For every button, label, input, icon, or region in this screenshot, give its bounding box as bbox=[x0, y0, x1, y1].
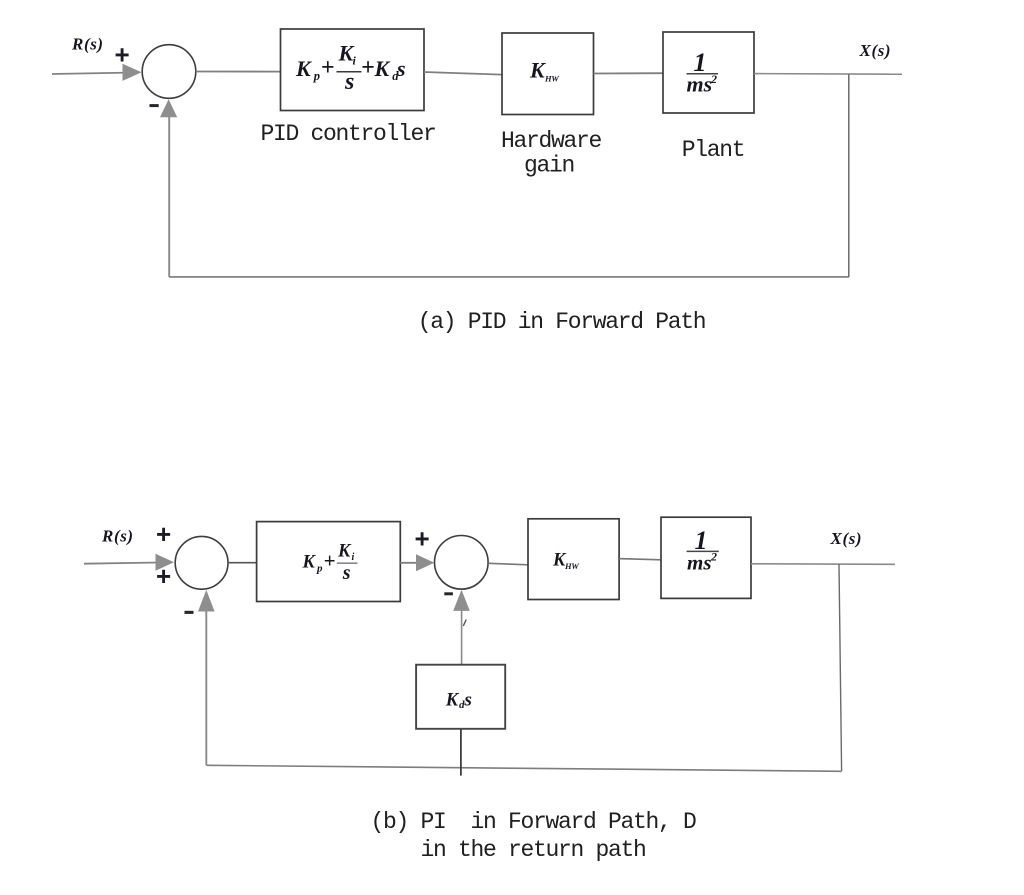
block: PID controller Kp+Ki/s+Kd s (a) bbox=[281, 29, 425, 111]
svg-text:p: p bbox=[316, 563, 323, 575]
svg-text:(b) PI in Forward Path, D: (b) PI in Forward Path, D bbox=[370, 809, 696, 835]
minus sign at S1 (a) bbox=[150, 104, 159, 107]
wire: Kd s block up to S3 (b) bbox=[461, 594, 463, 665]
value label K_HW (a) bbox=[529, 58, 560, 84]
svg-text:+: + bbox=[115, 40, 130, 70]
svg-text:Hardware: Hardware bbox=[501, 128, 602, 154]
block: PI controller Kp+Ki/s (b) bbox=[257, 522, 401, 602]
svg-text:K: K bbox=[302, 553, 317, 573]
svg-text:(a) PID in Forward Path: (a) PID in Forward Path bbox=[418, 309, 706, 335]
wire S2 to PI block (b) bbox=[228, 562, 257, 564]
svg-text:+: + bbox=[415, 524, 430, 554]
summing junction S1 (a) bbox=[142, 45, 196, 99]
wire: feedback left vertical up to S2 (b) bbox=[205, 607, 207, 765]
svg-text:ms: ms bbox=[687, 72, 713, 97]
svg-text:s: s bbox=[342, 562, 351, 584]
wire PID block to hardware-gain block (a) bbox=[424, 72, 502, 75]
arrowhead of input wire into S2 (b) bbox=[156, 554, 175, 571]
svg-text:K: K bbox=[445, 691, 460, 711]
wire PI block to summing junction S3 (b) bbox=[400, 562, 420, 564]
block: plant 1/ms^2 (a) bbox=[663, 32, 754, 113]
svg-text:Plant: Plant bbox=[682, 137, 745, 163]
value label 1/ms^2 (b) bbox=[687, 526, 719, 575]
svg-text:HW: HW bbox=[544, 74, 560, 84]
wire: feedback right vertical from output tap (a) bbox=[848, 74, 850, 277]
svg-text:p: p bbox=[313, 69, 320, 83]
value label Kp + Ki/s + Kd s (a) bbox=[295, 41, 406, 95]
wire plant to output X(s) (b) bbox=[751, 563, 895, 566]
svg-text:PID controller: PID controller bbox=[260, 121, 435, 147]
wire hardware-gain to plant block (b) bbox=[619, 559, 661, 560]
value label Kd s (b) bbox=[445, 690, 472, 712]
value label 1/ms^2 (a) bbox=[687, 48, 719, 97]
svg-text:X(s): X(s) bbox=[859, 41, 892, 60]
value label Kp + Ki/s (b) bbox=[302, 542, 358, 585]
wire: input R(s) into summing junction S1 (a) bbox=[52, 73, 135, 75]
svg-text:R(s): R(s) bbox=[71, 34, 104, 53]
svg-text:+: + bbox=[324, 549, 336, 573]
svg-text:s: s bbox=[464, 690, 472, 711]
block: hardware gain K_HW (a) bbox=[502, 33, 594, 115]
svg-text:ms: ms bbox=[687, 551, 712, 575]
value label K_HW (b) bbox=[552, 551, 580, 572]
svg-text:K: K bbox=[295, 56, 312, 81]
label: Hardware gain (a) bbox=[501, 128, 602, 179]
svg-text:2: 2 bbox=[710, 72, 717, 86]
block: derivative Kd s (b) bbox=[416, 665, 505, 729]
svg-text:K: K bbox=[529, 58, 546, 83]
wire: feedback right vertical from output tap (b) bbox=[839, 564, 842, 771]
minus sign at S2 (b) bbox=[185, 611, 194, 614]
svg-text:s: s bbox=[344, 69, 354, 95]
wire: input R(s) into summing junction S2 (b) bbox=[84, 563, 160, 564]
svg-text:K: K bbox=[374, 56, 391, 81]
block: plant 1/ms^2 (b) bbox=[661, 517, 751, 598]
wire: feedback bottom horizontal (a) bbox=[169, 276, 849, 278]
svg-text:+: + bbox=[156, 519, 171, 549]
arrowhead of input wire into S1 (a) bbox=[123, 64, 142, 81]
svg-text:s: s bbox=[396, 56, 406, 81]
svg-text:gain: gain bbox=[524, 153, 574, 179]
summing junction S3 (b) bbox=[435, 536, 489, 590]
arrowhead of feedback into S2 bottom (b) bbox=[198, 590, 215, 612]
summing junction S2 (b) bbox=[175, 536, 228, 589]
svg-text:+: + bbox=[361, 55, 375, 81]
wire S3 to hardware-gain block (b) bbox=[488, 563, 528, 565]
arrowhead from Kd s block into S3 bottom (b) bbox=[453, 590, 470, 611]
wire: feedback left vertical up to S1 (a) bbox=[168, 112, 170, 277]
stray prime tick near S3 (b) bbox=[463, 620, 466, 627]
wire hardware-gain block to plant block (a) bbox=[594, 72, 664, 74]
svg-text:+: + bbox=[321, 55, 335, 81]
svg-text:in the return path: in the return path bbox=[420, 837, 645, 863]
svg-text:K: K bbox=[337, 542, 352, 562]
svg-text:X(s): X(s) bbox=[830, 529, 863, 548]
wire: feedback bottom horizontal (b) bbox=[206, 765, 841, 771]
block: hardware gain K_HW (b) bbox=[528, 519, 619, 600]
svg-text:i: i bbox=[352, 552, 355, 563]
arrowhead of feedback into S1 bottom (a) bbox=[160, 99, 177, 117]
svg-text:2: 2 bbox=[710, 550, 717, 564]
minus sign at S3 (b) bbox=[444, 592, 453, 595]
arrowhead into S3 (b) bbox=[416, 554, 434, 571]
svg-text:R(s): R(s) bbox=[101, 526, 134, 545]
wire: Kd s block down to feedback line (b) bbox=[460, 729, 462, 776]
wire S1 to PID controller block (a) bbox=[196, 71, 281, 73]
wire plant to output X(s) (a) bbox=[754, 73, 902, 76]
svg-text:HW: HW bbox=[564, 561, 580, 571]
